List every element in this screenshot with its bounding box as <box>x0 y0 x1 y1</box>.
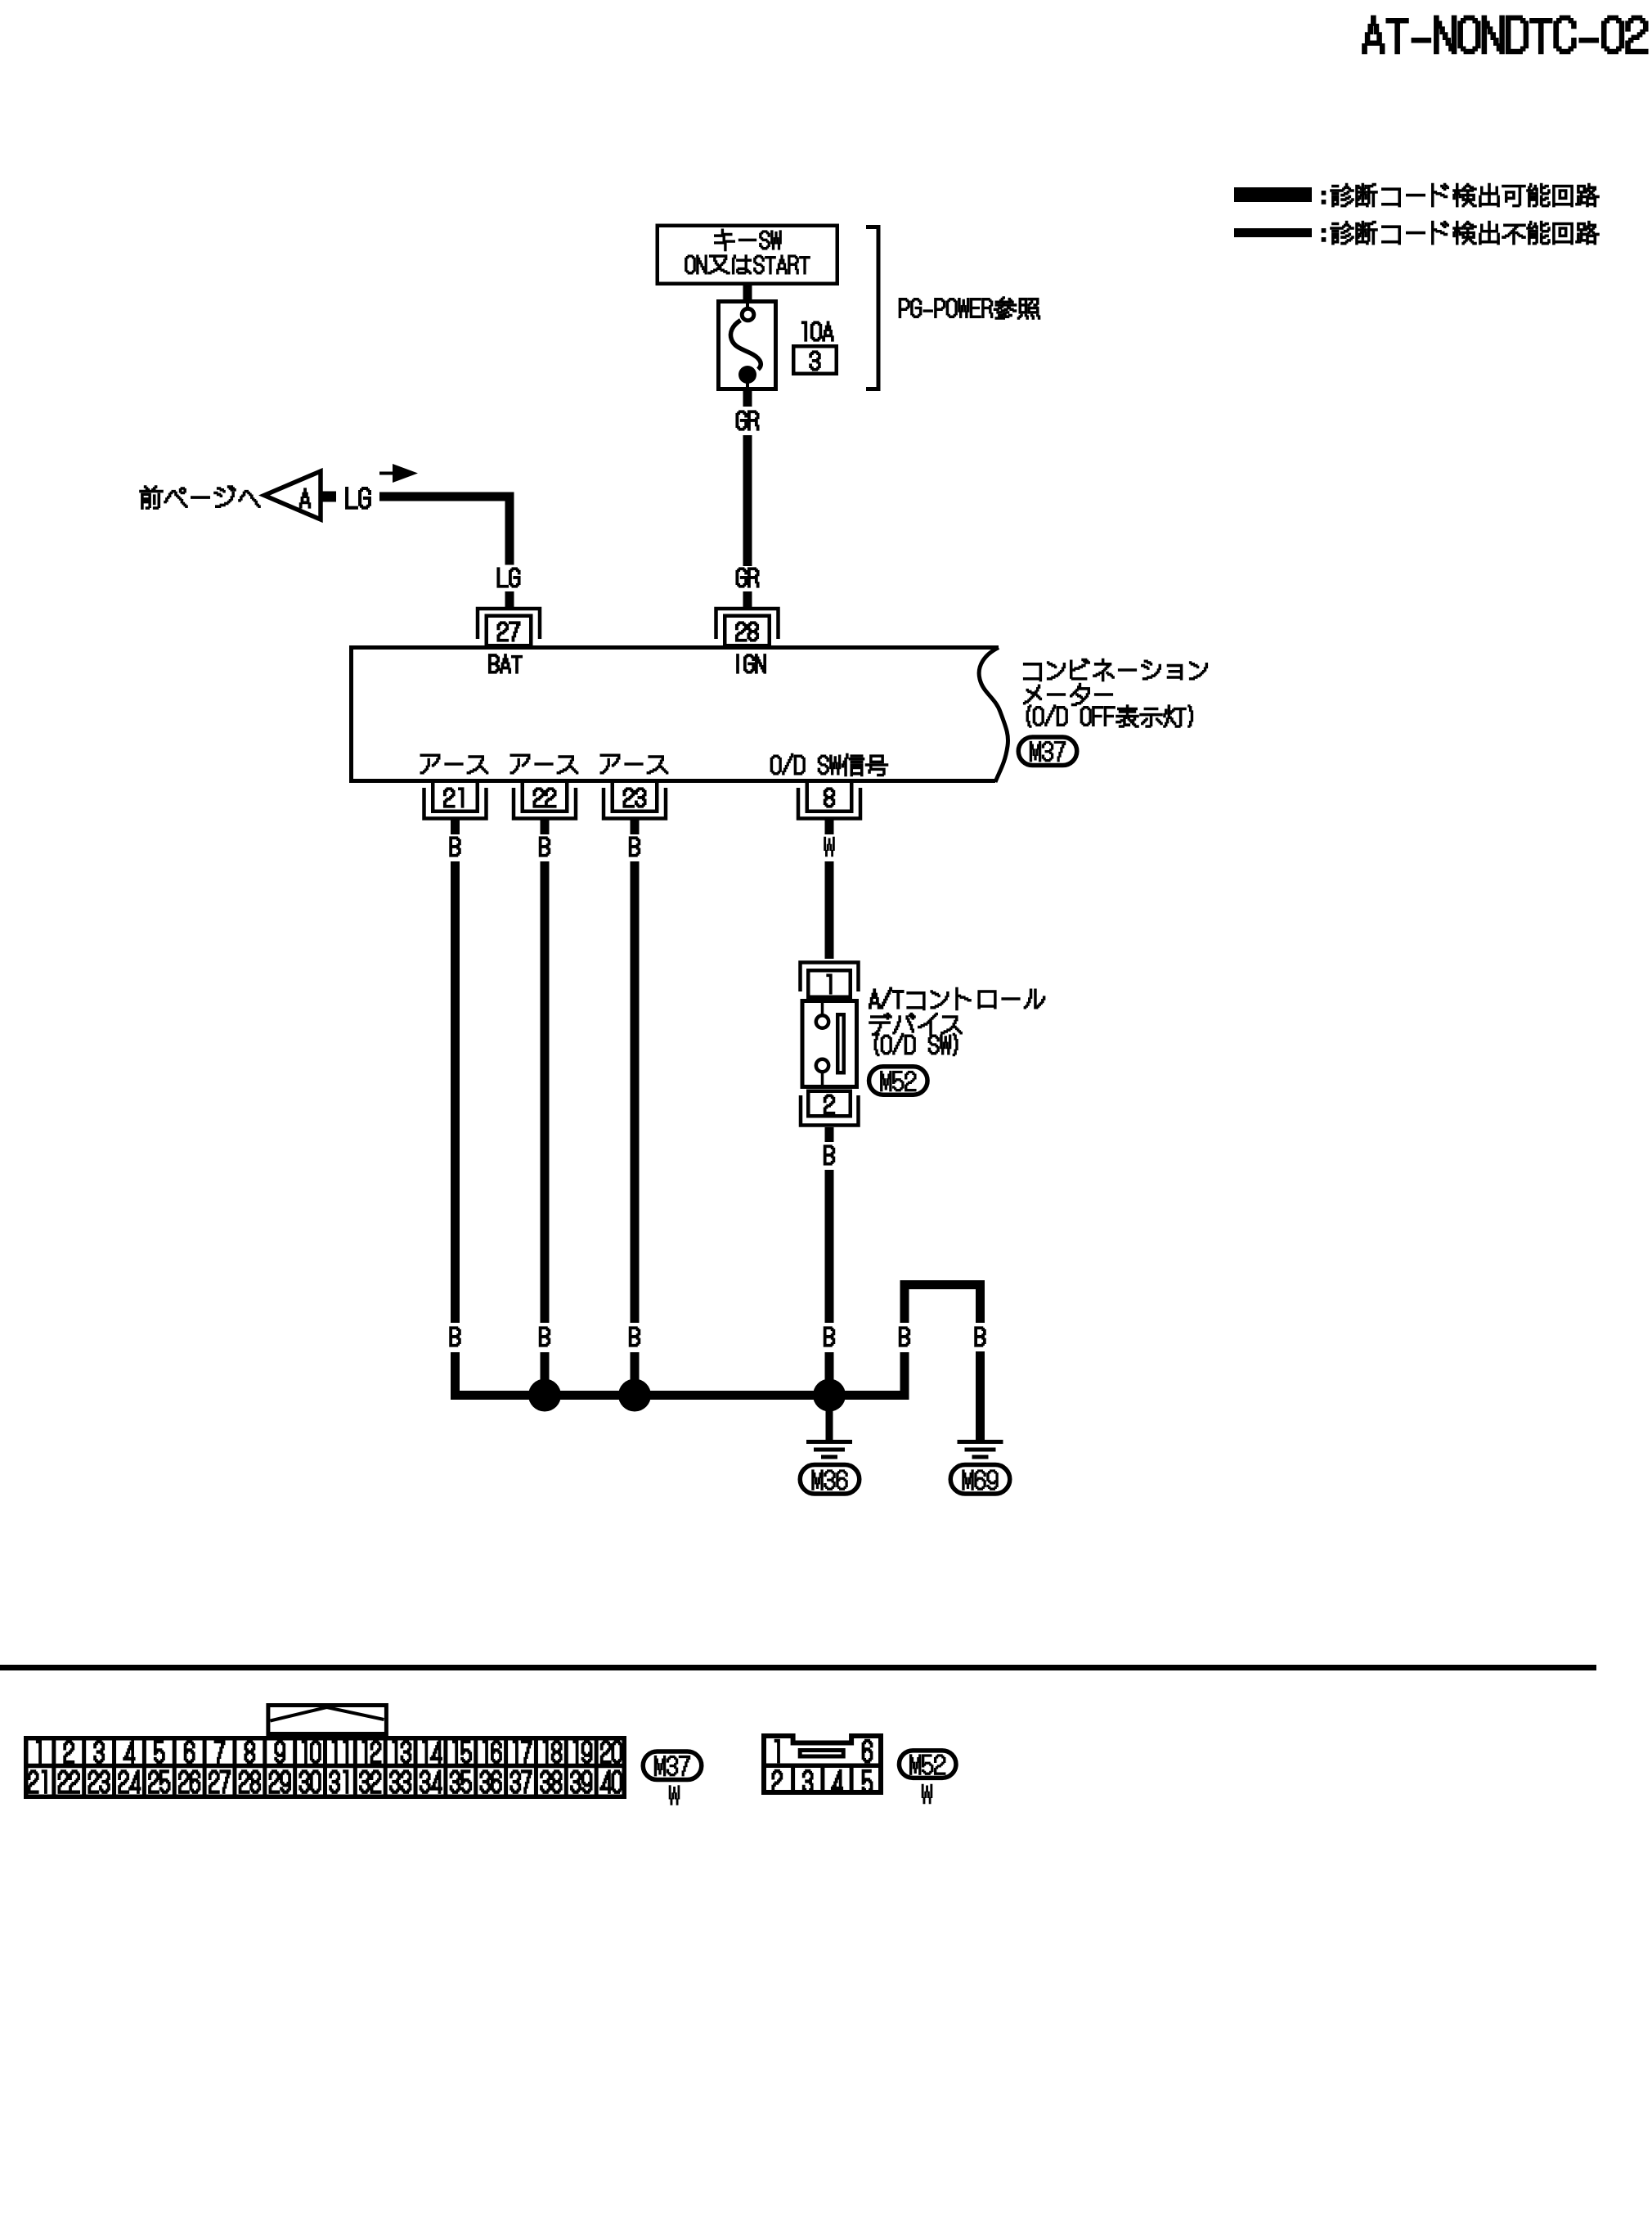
connector M37 grid <box>26 1738 625 1797</box>
label B below O/D switch <box>824 1145 835 1165</box>
page connector triangle A <box>264 471 321 519</box>
label IGN <box>737 654 765 673</box>
fuse number box 3 <box>793 346 837 374</box>
legend label: DTC-detectable circuit <box>1331 184 1599 207</box>
wire from pin x=556.5 upper <box>451 819 460 835</box>
pin 28 (IGN) <box>716 609 779 639</box>
O/D switch actuator bar <box>837 1014 844 1072</box>
connector M52 key slot <box>800 1751 843 1757</box>
wire GR fuse to meter pin 28 (upper) <box>743 391 752 407</box>
pin 23 <box>613 781 658 812</box>
pin 8 <box>807 781 852 812</box>
connector M52 pin numbers <box>775 1740 779 1763</box>
connector oval M37 (footer) <box>643 1751 702 1780</box>
ground label pin23 <box>600 754 668 774</box>
connector oval M52 (footer) <box>899 1751 956 1778</box>
junction dot 3 (to M36) <box>813 1379 846 1412</box>
combination meter box M37 <box>352 648 999 781</box>
ground symbol M69 <box>958 1440 1003 1444</box>
fuse F3 box <box>719 302 776 389</box>
wire from pin x=666 upper <box>541 819 550 835</box>
pin 27 (BAT) <box>478 609 540 639</box>
label B x=666 <box>540 837 550 856</box>
label previous page <box>140 486 260 509</box>
wire branch top bar <box>900 1280 985 1289</box>
wire pin23 to junction <box>631 861 640 1400</box>
wire branch up-left leg <box>900 1280 909 1400</box>
wire junction to ground M36 <box>826 1400 833 1441</box>
ground oval M69 <box>950 1465 1010 1495</box>
O/D switch contact 1 <box>816 1015 828 1027</box>
junction dot 2 <box>618 1379 651 1412</box>
label BAT <box>489 654 522 673</box>
A/T control device label <box>907 987 1045 1009</box>
wire from pin x=776 upper <box>631 819 640 835</box>
label-gap B x=776 <box>622 1323 648 1352</box>
wire B O/D switch to junction <box>825 1170 834 1400</box>
label B x=556.5 <box>450 837 460 856</box>
ground bus wire <box>451 1391 909 1400</box>
connector M37 pin numbers <box>37 1741 41 1764</box>
connector oval M52 (device) <box>869 1067 928 1095</box>
wire LG to pin 27 <box>505 591 514 607</box>
wire LG vertical <box>505 492 514 565</box>
pin 22 <box>523 781 568 812</box>
label GR (above pin 28) <box>736 568 758 587</box>
ground oval M36 <box>800 1465 860 1495</box>
wire B below O/D switch upper <box>825 1127 834 1142</box>
page title AT-NONDTC-02 <box>1362 16 1647 53</box>
connector oval M37 (meter) <box>1018 737 1077 766</box>
label B branch right <box>975 1327 985 1347</box>
label-gap B x=556.5 <box>442 1323 469 1352</box>
label LG (at triangle) <box>346 488 370 509</box>
label-gap B x=666 <box>532 1323 558 1352</box>
wire GR to pin 28 <box>743 591 752 607</box>
fuse rating 10A <box>802 321 833 341</box>
ground label pin21 <box>420 754 488 774</box>
wire pin21 to bus <box>451 861 460 1400</box>
wire from pin x=1014 upper <box>825 819 834 835</box>
stub from triangle <box>321 492 336 502</box>
wire branch down-right leg <box>976 1280 985 1323</box>
label LG (above pin 27) <box>497 568 519 587</box>
wire LG horizontal <box>379 492 514 501</box>
label W x=1014 <box>824 837 835 856</box>
ground label pin22 <box>510 754 578 774</box>
junction dot 1 <box>528 1379 561 1412</box>
O/D switch body <box>802 1001 857 1087</box>
label-gap B x=1014 <box>816 1323 842 1352</box>
signal label O/D SW <box>842 753 887 776</box>
fuse element <box>746 302 749 308</box>
O/D switch contact 2 <box>816 1059 828 1072</box>
wire key-SW to fuse <box>743 285 752 300</box>
ground symbol M36 <box>806 1440 852 1444</box>
connector M52 outline <box>764 1736 881 1792</box>
power source box key-SW ON/START <box>658 226 837 284</box>
connector M52 color W <box>922 1784 932 1804</box>
direction arrow <box>379 472 394 475</box>
label GR (below fuse) <box>736 411 758 430</box>
label B branch left <box>891 1323 918 1352</box>
O/D switch pin 2 <box>808 1091 851 1117</box>
legend label: DTC-undetectable circuit <box>1331 222 1599 245</box>
wire branch right to ground M69 <box>976 1351 985 1441</box>
connector M37 color W <box>669 1786 680 1805</box>
label B x=776 <box>630 837 640 856</box>
legend thin-line sample bar <box>1234 228 1312 237</box>
bracket PG-POWER reference <box>866 227 878 389</box>
legend thick-line sample bar <box>1234 187 1312 202</box>
wire W pin8 to O/D switch <box>825 861 834 959</box>
connector M37 tab <box>268 1706 387 1734</box>
wire pin22 to junction <box>541 861 550 1400</box>
meter description <box>1024 659 1208 681</box>
O/D switch pin 1 <box>801 963 859 992</box>
wire GR mid segment <box>743 435 752 566</box>
separator line <box>0 1665 1596 1670</box>
pin 21 <box>433 781 478 812</box>
